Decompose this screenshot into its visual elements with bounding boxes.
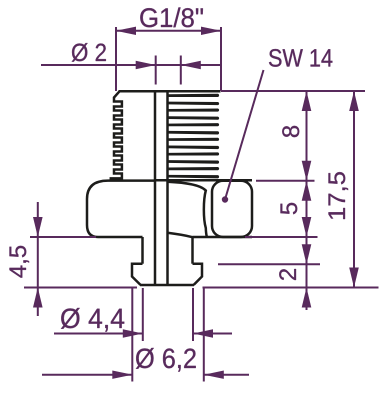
Ø4,4 right arrow	[193, 329, 213, 337]
thread crest line 5	[168, 123, 219, 126]
hex bottom edge right	[193, 236, 253, 239]
thread crest line 10	[168, 160, 219, 164]
thread crest line 11	[168, 167, 219, 170]
thread crest line 2	[168, 102, 219, 106]
dimension column 2 (17,5)	[353, 91, 355, 288]
5 top arrow	[302, 181, 312, 201]
hex front face top chamfer arc	[168, 182, 207, 237]
hole line right / centerline	[166, 91, 169, 285]
thread crest line 1	[168, 94, 219, 97]
hex front face bottom chamfer arc	[168, 233, 193, 237]
Ø6,2 extension right	[203, 288, 205, 382]
hole line left	[154, 91, 157, 285]
8 top arrow	[302, 91, 312, 111]
G1/8 extension right	[220, 27, 222, 91]
extension line part bottom left	[24, 287, 137, 289]
Ø2 left arrow	[136, 61, 156, 69]
Ø4,4 left arrow	[123, 329, 143, 337]
17,5 top arrow	[349, 91, 359, 111]
hex top edge right	[155, 179, 252, 182]
thread crest line 4	[168, 116, 219, 120]
Ø2 dimension line	[41, 64, 221, 66]
label Ø 6,2	[136, 348, 196, 372]
label 2	[279, 269, 296, 280]
thread crest line 9	[168, 152, 219, 155]
bottom edge	[140, 284, 194, 287]
SW14 leader line	[225, 70, 264, 200]
extension line hex bottom	[245, 236, 318, 238]
2 top arrow (outside)	[302, 244, 312, 264]
flange (sectioned hex) left half	[87, 181, 155, 237]
Ø6,2 right arrow	[204, 371, 224, 379]
top extension line (part top)	[221, 90, 365, 92]
G1/8 left arrow	[116, 27, 136, 35]
17,5 bottom arrow	[349, 268, 359, 288]
label Ø 4,4	[61, 308, 124, 332]
label 17,5	[328, 172, 348, 219]
extension line flange bottom left	[30, 236, 96, 238]
thread bands (right half)	[168, 94, 219, 179]
Ø6,2 dimension line left part	[42, 374, 132, 376]
2 bottom arrow (outside)	[302, 288, 312, 308]
label Ø 2	[72, 43, 106, 62]
Ø2 tick left	[155, 56, 157, 85]
stem upper right edge	[191, 237, 194, 264]
Ø4,4 dimension line right part	[193, 333, 232, 335]
top edge of fitting	[119, 90, 221, 93]
Ø2 tick right	[180, 56, 182, 85]
Ø4,4 dimension line left part	[54, 333, 143, 335]
thread crest line 8	[168, 146, 219, 150]
label 4,5	[9, 246, 29, 278]
barb step right	[193, 264, 203, 285]
arrowheads	[33, 27, 359, 379]
Ø4,4 extension right	[192, 288, 194, 341]
4,5 bottom arrow (outside)	[33, 288, 43, 308]
SW14 leader dot	[222, 196, 228, 202]
barb step left	[132, 264, 143, 285]
stem upper (Ø4,4) left edge	[141, 237, 144, 264]
dimension column 1 (8/5/2)	[306, 91, 308, 310]
thread crest line 3	[168, 108, 219, 111]
thread crest line 12	[168, 175, 219, 179]
thread section profile (left, serrated)	[111, 91, 122, 180]
G1/8 dimension line	[116, 30, 221, 32]
thread crest line 6	[168, 131, 219, 135]
label SW 14	[269, 49, 332, 67]
G1/8 right arrow	[201, 27, 221, 35]
label G1/8"	[140, 7, 203, 27]
extension line part bottom right	[203, 287, 379, 289]
thread crest line 7	[168, 138, 219, 141]
extension line barb step	[218, 263, 320, 265]
extension line hex top	[256, 180, 315, 182]
Ø6,2 dimension line right part	[204, 374, 249, 376]
4,5 top arrow (outside)	[33, 217, 43, 237]
Ø6,2 extension left	[131, 288, 133, 382]
Ø4,4 extension left	[142, 288, 144, 341]
Ø6,2 left arrow	[112, 371, 132, 379]
G1/8 extension left	[115, 27, 117, 91]
8 bottom arrow	[302, 161, 312, 181]
5 bottom arrow	[302, 217, 312, 237]
hex side face (rounded)	[212, 181, 252, 237]
Ø2 right arrow	[181, 61, 201, 69]
label 5	[280, 203, 297, 214]
label 8	[282, 126, 299, 137]
left column (4,5)	[37, 202, 39, 316]
